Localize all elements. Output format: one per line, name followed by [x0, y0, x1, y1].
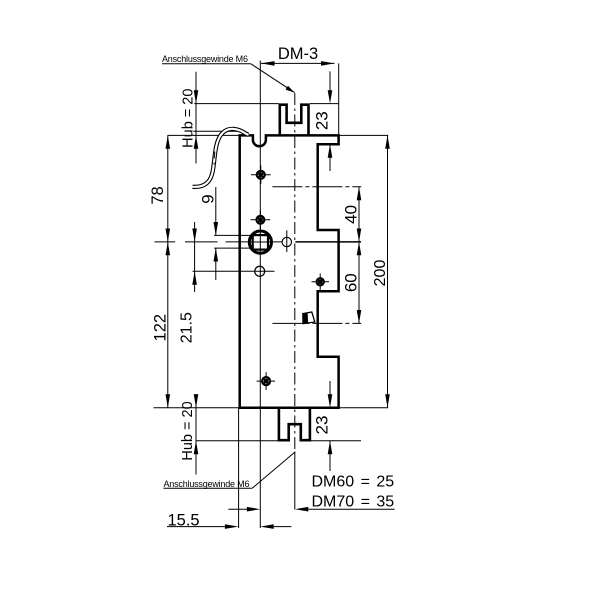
follower center line y=241.9 segments	[155, 241, 176, 243]
svg-text:Anschlussgewinde M6: Anschlussgewinde M6	[162, 54, 248, 64]
screw hole on right step (hatched)	[312, 274, 330, 291]
dimension Hub = 20 (top, outside arrows)	[181, 72, 199, 164]
leader Anschlussgewinde M6 (bottom)	[164, 452, 296, 489]
svg-text:23: 23	[313, 111, 332, 130]
curved hook lever at top left (double line band)	[193, 129, 249, 187]
screw hole bottom (hatched)	[257, 372, 275, 390]
follower tangent line y=235.4	[214, 234, 265, 236]
vertical extension of body left edge below body	[238, 408, 240, 528]
dimension 200 (far right, inside arrows)	[372, 135, 390, 407]
solid lower extension of slot center line	[294, 452, 296, 510]
vertical dash-dot center line of lug slots x=294.8	[294, 93, 296, 452]
svg-text:DM70 = 35: DM70 = 35	[312, 493, 395, 510]
svg-text:40: 40	[341, 205, 360, 224]
extension line body top right y=135.4	[339, 134, 389, 136]
svg-text:Anschlussgewinde M6: Anschlussgewinde M6	[164, 479, 250, 489]
plain hole below follower	[255, 266, 265, 276]
svg-text:200: 200	[372, 260, 389, 287]
dimension 23 (bottom right, outside arrows)	[312, 381, 332, 471]
body outline (lock case side profile, thick)	[240, 135, 339, 407]
horizontal dash-dot line y=186.8 (hidden feature level)	[272, 186, 361, 188]
svg-text:60: 60	[342, 273, 361, 292]
svg-text:122: 122	[151, 314, 169, 342]
short phantom line above body top y=131.2	[193, 130, 239, 132]
svg-text:Hub = 20: Hub = 20	[180, 401, 196, 460]
leader Anschlussgewinde M6 (top)	[162, 54, 295, 92]
lower hole center line y=271.3	[193, 270, 275, 272]
dimension 60 (right, inside arrows)	[342, 242, 362, 324]
small circle marker right of follower	[282, 230, 291, 252]
extension line body bottom left y=407.7	[154, 407, 239, 409]
extension line at bottom lug bottom y=440.8	[196, 440, 279, 442]
extension line body top left y=135.4	[168, 134, 240, 136]
screw hole second (hatched)	[251, 211, 271, 229]
follower tangent line y=248.1	[214, 247, 265, 249]
dimension 21.5 (left, outside arrows)	[178, 222, 197, 343]
svg-text:9: 9	[199, 194, 218, 203]
dimension 9 (follower slot, outside arrows)	[199, 187, 219, 280]
dimension 23 (top right, outside arrows)	[313, 71, 333, 171]
svg-text:DM-3: DM-3	[278, 45, 318, 63]
screw hole top (hatched)	[251, 166, 271, 184]
dimension Hub = 20 (bottom, outside arrows)	[180, 394, 198, 475]
horizontal dash-dot line y=323.4 (60 dimension level)	[272, 322, 361, 324]
svg-text:15.5: 15.5	[168, 512, 200, 530]
dimension row 15.5 (y=526.6, outside arrows)	[167, 512, 291, 530]
dimension DM-3 (top horizontal)	[261, 45, 335, 65]
dimension 78 (left, inside arrows)	[149, 135, 170, 242]
dimension row DM70 = 35 (y=509.2, outside arrows)	[228, 507, 394, 512]
svg-text:DM60 = 25: DM60 = 25	[312, 473, 395, 490]
follower (square spindle hub with hatched ring)	[249, 231, 271, 253]
svg-text:21.5: 21.5	[178, 312, 195, 343]
bottom connecting lug with M6 thread slot	[279, 407, 310, 440]
svg-text:Hub = 20: Hub = 20	[181, 89, 197, 148]
svg-text:78: 78	[149, 186, 167, 204]
dimension 122 (left, inside arrows)	[151, 242, 170, 408]
extension line body bottom right y=407.7	[339, 407, 389, 409]
dimension 40 (right, inside arrows)	[341, 187, 361, 242]
latch stop symbol (small tilted box)	[303, 312, 315, 324]
hook lever center line fragments (dash-dot)	[213, 152, 216, 159]
vertical screw axis line x=260.3	[259, 61, 261, 529]
top connecting lug with M6 thread slot	[280, 105, 309, 136]
vertical extension of body right edge above body	[338, 63, 340, 134]
svg-text:23: 23	[312, 416, 331, 435]
horizontal extension line at lug top y=103.6	[194, 103, 278, 105]
